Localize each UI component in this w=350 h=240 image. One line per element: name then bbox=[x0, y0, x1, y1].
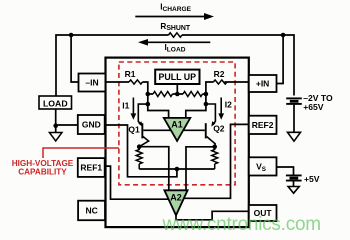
op-amp A2 bbox=[164, 190, 187, 215]
svg-text:+65V: +65V bbox=[303, 102, 324, 112]
op-amp A1 bbox=[164, 118, 191, 141]
Q1 emitter arrowhead bbox=[138, 121, 142, 126]
current source arrow I2 bbox=[218, 98, 232, 120]
svg-text:www.cntronics.com: www.cntronics.com bbox=[162, 214, 321, 235]
pin +IN bbox=[249, 75, 277, 92]
svg-text:Q2: Q2 bbox=[213, 124, 225, 134]
svg-text:NC: NC bbox=[85, 206, 97, 216]
wire: REF2 to A2 right slant bbox=[184, 124, 249, 198]
node N2 bbox=[204, 102, 209, 107]
pin REF1 bbox=[78, 158, 105, 177]
svg-text:REF2: REF2 bbox=[252, 120, 274, 130]
wire: R1 to node N1 bbox=[143, 82, 148, 104]
current arrow ILOAD bbox=[138, 39, 210, 54]
resistor ladder right bbox=[183, 92, 203, 97]
wire: LOAD to gnd node bbox=[55, 109, 57, 133]
svg-text:+5V: +5V bbox=[304, 174, 320, 184]
wire: bottom rail bbox=[139, 168, 215, 170]
pin GND bbox=[78, 115, 105, 134]
resistor R3 (Q1 collector load) bbox=[136, 147, 142, 169]
svg-text:LOAD: LOAD bbox=[43, 98, 68, 108]
svg-text:R2: R2 bbox=[214, 69, 225, 79]
wire: PULL UP drop bbox=[176, 84, 178, 94]
node: ladder center bbox=[175, 92, 180, 97]
wire: -IN drop bbox=[71, 35, 78, 82]
node: ladder right N2a bbox=[204, 92, 209, 97]
battery V1 -2V TO +65V bbox=[286, 93, 333, 132]
wire: N1 to A1 input bbox=[148, 104, 169, 118]
pointer line (red) bbox=[43, 148, 119, 158]
node: rail to -IN junction bbox=[69, 33, 74, 38]
svg-text:–IN: –IN bbox=[85, 78, 98, 88]
node: Q2 collector bbox=[212, 145, 217, 150]
resistor R4 (Q2 collector load) bbox=[212, 147, 218, 169]
wire: +IN drop bbox=[277, 35, 284, 84]
current source arrow I1 bbox=[122, 98, 136, 120]
node N1 bbox=[146, 102, 151, 107]
svg-text:R1: R1 bbox=[125, 69, 136, 79]
svg-text:A2: A2 bbox=[170, 192, 182, 202]
ground (load) bbox=[49, 133, 62, 142]
resistor ladder left bbox=[153, 92, 173, 97]
ground (battery V1) bbox=[288, 132, 301, 141]
current arrow ICHARGE bbox=[135, 3, 214, 21]
wire: A2 output to OUT bbox=[176, 211, 249, 220]
wire: N2 to Q2 emitter bbox=[206, 104, 216, 125]
wire: center tap hook to GND bbox=[105, 125, 177, 177]
node: Q1 collector bbox=[137, 144, 142, 149]
pin OUT bbox=[249, 205, 277, 221]
ground (battery V2) bbox=[288, 187, 299, 194]
svg-text:PULL UP: PULL UP bbox=[159, 72, 197, 82]
node: gnd junction bbox=[53, 123, 58, 128]
node: rail center tap bbox=[175, 167, 180, 172]
node: rail to +IN junction bbox=[281, 33, 286, 38]
wire: top shunt rail bbox=[56, 35, 294, 96]
wire: ladder rail bbox=[148, 93, 206, 95]
battery V2 +5V bbox=[286, 174, 320, 187]
svg-text:I1: I1 bbox=[122, 100, 129, 110]
resistor R1 bbox=[129, 80, 142, 84]
wire: -IN to R1 bbox=[105, 81, 129, 83]
svg-text:REF1: REF1 bbox=[80, 163, 102, 173]
pin VS bbox=[249, 157, 277, 175]
wire: Q1 collector to A2 input bbox=[139, 147, 169, 191]
wire: R2 to node N2 bbox=[206, 82, 214, 104]
label HIGH-VOLTAGE CAPABILITY bbox=[12, 159, 74, 177]
svg-text:+IN: +IN bbox=[256, 79, 269, 89]
svg-text:CAPABILITY: CAPABILITY bbox=[18, 168, 67, 177]
wire: +IN to R2 bbox=[225, 81, 249, 83]
wire: N2 to A1 input bbox=[186, 104, 206, 118]
dashed box: high-voltage capability region bbox=[119, 62, 235, 185]
resistor RSHUNT bbox=[169, 33, 182, 37]
Q2 emitter arrowhead bbox=[211, 121, 215, 126]
pin REF2 bbox=[249, 116, 277, 134]
svg-text:Q1: Q1 bbox=[128, 125, 140, 135]
resistor R2 bbox=[213, 80, 226, 84]
svg-text:I2: I2 bbox=[225, 100, 232, 110]
transistor Q1 bbox=[128, 123, 171, 147]
wire: N1 to Q1 emitter bbox=[138, 104, 148, 125]
transistor Q2 bbox=[183, 123, 225, 147]
svg-text:GND: GND bbox=[82, 120, 101, 130]
wire: gnd node to GND pin bbox=[56, 124, 78, 126]
PULL UP block bbox=[155, 70, 199, 84]
svg-text:A1: A1 bbox=[171, 120, 183, 130]
wire: Q2 collector to A2 input bbox=[186, 147, 215, 191]
LOAD box bbox=[39, 96, 72, 109]
wire: REF1 to A2 left slant bbox=[104, 166, 168, 199]
pin NC bbox=[78, 201, 105, 221]
IC outline U1 bbox=[106, 58, 249, 228]
wire: VS to +5V supply bbox=[277, 167, 294, 175]
pin -IN bbox=[79, 74, 106, 92]
node: ladder left N1a bbox=[146, 92, 151, 97]
